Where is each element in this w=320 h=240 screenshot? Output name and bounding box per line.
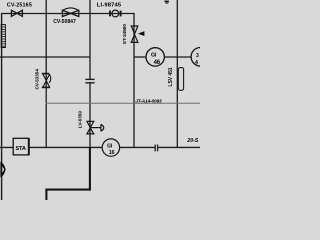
- svg-text:CV-53354: CV-53354: [35, 69, 40, 90]
- instrument bubble GI-16: [102, 139, 119, 156]
- svg-text:LSV 451: LSV 451: [168, 67, 174, 86]
- svg-text:CV-25165: CV-25165: [7, 2, 32, 8]
- instrument bubble at right edge: [191, 48, 210, 67]
- svg-text:CV-50847: CV-50847: [53, 19, 76, 25]
- heater hatched bar: [1, 25, 5, 48]
- wire VD riser x=177: [176, 0, 178, 148]
- svg-text:4: 4: [195, 60, 198, 66]
- capacitor break C2 on H4: [155, 145, 157, 152]
- level gauge LSV-451 capsule: [178, 68, 183, 91]
- wire H4 bottom y=147 middle: [119, 146, 154, 148]
- wire H1 top header y=13.5: [1, 13, 135, 15]
- valve CV-50847: [62, 8, 78, 17]
- svg-text:3: 3: [196, 53, 199, 59]
- valve LI-98745 ball valve: [110, 10, 121, 17]
- valve LV-0359: [87, 121, 104, 133]
- wire VB riser x=46: [45, 0, 47, 148]
- svg-text:ST-34560: ST-34560: [122, 24, 128, 44]
- wire H2 right segment to GI-46: [134, 56, 146, 58]
- valve ST-34560: [131, 26, 138, 42]
- wire H4 bottom y=147 right: [158, 146, 200, 148]
- svg-text:GI: GI: [151, 53, 157, 59]
- wire VA left riser x=1.5: [1, 13, 3, 200]
- svg-text:GI: GI: [107, 144, 113, 150]
- tie mark top right: [164, 1, 169, 4]
- svg-text:STA: STA: [16, 146, 26, 152]
- svg-text:46: 46: [154, 60, 161, 66]
- svg-text:16: 16: [109, 150, 115, 156]
- capacitor break C1 on VC: [85, 79, 94, 82]
- svg-text:20-S: 20-S: [186, 138, 198, 144]
- valve CV-53354: [42, 74, 51, 88]
- wire H4 bottom y=147 left: [0, 146, 102, 148]
- wire H2 right segment GI-46 to edge circle: [165, 56, 192, 58]
- wire VC riser x=90 upper: [89, 0, 91, 79]
- wire VC riser x=90 lower: [89, 83, 91, 148]
- valve CV-25165: [11, 10, 22, 16]
- wire V-mid riser x=134: [133, 13, 135, 148]
- relief pilot triangle on ST-34560: [138, 31, 145, 36]
- instrument bubble GI-46: [146, 48, 164, 66]
- station box STA: [13, 138, 29, 155]
- svg-text:JT-A14-0093: JT-A14-0093: [135, 98, 162, 104]
- wire H2 left y=57: [0, 56, 91, 58]
- svg-text:LV-0359: LV-0359: [78, 111, 83, 128]
- wire drain route VC down-left-down: [46, 147, 90, 200]
- wire H3 y=103: [46, 102, 200, 104]
- svg-text:LI-98745: LI-98745: [97, 3, 122, 9]
- check valve at left edge: [1, 162, 5, 177]
